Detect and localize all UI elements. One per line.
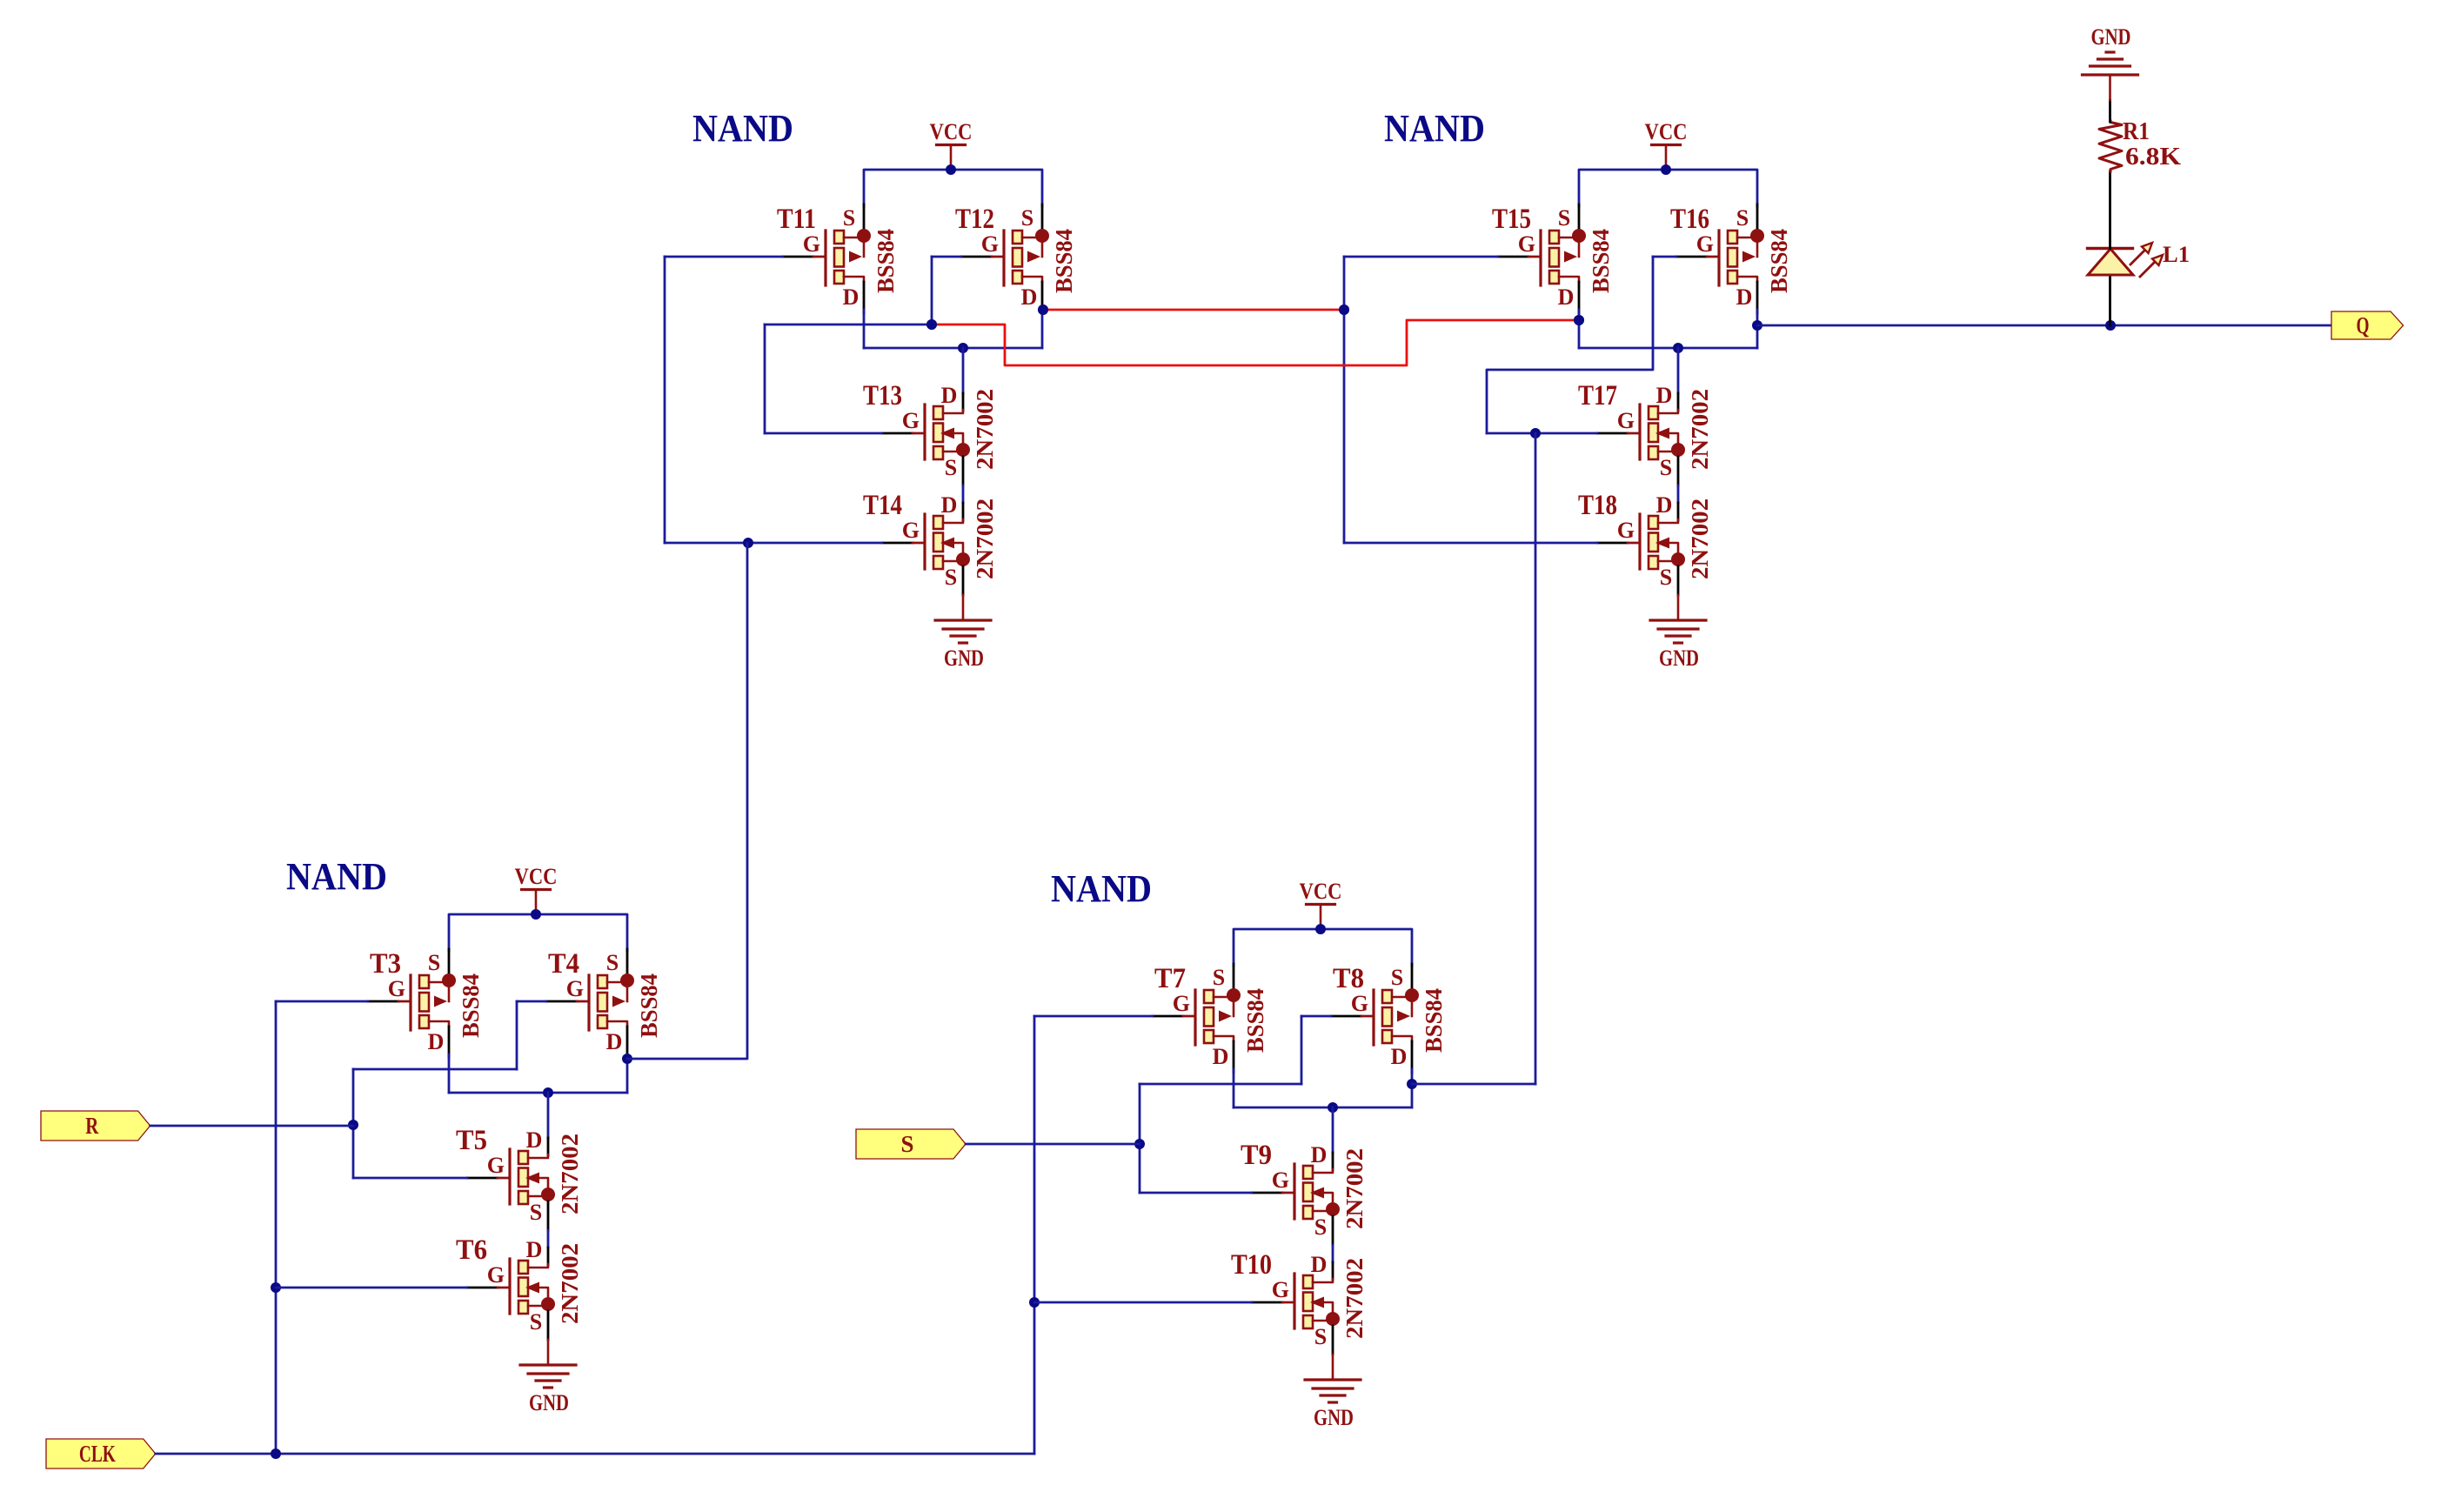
transistor T13 (2N7002 N-MOSFET) [863,380,998,485]
T14 drain pin [962,503,965,520]
junction S input node [1134,1139,1145,1149]
T5 gate pin [467,1177,498,1180]
T9 bulk line and source dot [1324,1193,1333,1205]
svg-text:D: D [1656,383,1673,408]
svg-text:D: D [428,1029,445,1054]
T10 drain pin [1332,1262,1334,1280]
T15 source lead and bulk dot [1559,237,1575,239]
junction red feedback joins T15 gate net [1339,304,1349,315]
svg-text:BSS84: BSS84 [1588,229,1614,293]
svg-text:D: D [1391,1044,1408,1069]
output row junction at T13 drain [958,343,968,353]
T6 bulk arrow [525,1282,539,1294]
transistor T12 (BSS84 P-MOSFET) [955,204,1077,313]
T15 channel pads [1549,231,1559,244]
svg-text:S: S [1660,455,1672,480]
svg-text:NAND: NAND [1384,107,1485,150]
wire T3 gate row [276,1000,368,1003]
svg-text:R: R [85,1113,98,1139]
T9 source pin [1332,1216,1334,1245]
wire NAND4 output to NAND3 input-B [1412,1083,1535,1086]
svg-text:S: S [1314,1324,1327,1349]
svg-text:D: D [843,284,859,310]
junction input-B node [926,319,937,330]
T17 bulk line and source dot [1669,433,1678,445]
VCC rail junction [531,909,541,920]
wire T5 gate row [353,1177,467,1180]
svg-text:S: S [945,565,957,590]
wire input-B upper row [353,1068,517,1071]
wire S net [966,1143,1140,1146]
junction re-stamp T15 gate net [1339,304,1349,315]
svg-text:GND: GND [1314,1405,1354,1430]
T10 bulk arrow [1310,1297,1324,1308]
junction NAND1 output tap [1038,304,1048,315]
T10 gate pin [1252,1301,1282,1304]
T15 gate bar [1539,231,1542,285]
svg-text:GND: GND [2091,24,2131,50]
junction re-stamp NAND1 input-B node [926,319,937,330]
junction CLK to T6 gate [271,1282,281,1293]
LED L1 [2088,242,2190,278]
wire T11 gate row [665,256,783,258]
svg-text:D: D [1213,1044,1229,1069]
T16 gate bar [1717,231,1720,285]
wire T8 gate row [1301,1015,1331,1018]
svg-text:G: G [487,1262,505,1288]
T3 bulk arrow [434,996,447,1007]
svg-text:6.8K: 6.8K [2125,144,2181,171]
T10 gate bar [1293,1274,1295,1328]
T14 channel pads [933,516,943,529]
T18 drain pin [1677,503,1680,520]
VCC rail wire [1234,929,1412,966]
T18 bulk line and source dot [1669,543,1678,555]
svg-text:VCC: VCC [1645,119,1688,144]
svg-text:D: D [1656,492,1673,518]
T13 gate bar [923,405,926,459]
wire output row to T9 drain [1332,1107,1334,1153]
junction NAND4 output tap [1407,1079,1417,1089]
T6 gate pin [467,1287,498,1289]
T15 bulk arrow [1564,251,1577,263]
T13 drain lead [943,410,963,413]
T4 drain pin [626,1027,629,1058]
VCC supply symbol [1645,119,1688,170]
wire T4 gate drop [516,1001,518,1069]
wire drain T8 down [1411,1069,1414,1107]
svg-text:VCC: VCC [515,864,558,889]
T8 drain pin [1411,1041,1414,1073]
wire drain T3 to output row [448,1054,451,1093]
svg-text:G: G [1617,408,1635,433]
T4 channel pads [598,975,607,988]
wire T17 gate row [1487,432,1597,435]
svg-text:T4: T4 [548,948,579,980]
svg-text:G: G [1272,1167,1289,1193]
T13 drain pin [962,393,965,411]
svg-text:NAND: NAND [1051,867,1152,910]
transistor T3 (BSS84 P-MOSFET) [368,948,484,1058]
junction input-A to NAND2 output [743,538,753,548]
wire T17 source to T18 drain [1677,485,1680,503]
T12 source pin [1041,204,1044,228]
wire T6 gate row [276,1287,467,1289]
T14 gate pin [882,542,913,545]
svg-text:T8: T8 [1333,963,1364,994]
wire input-B upper row [1140,1083,1301,1086]
output row wire [1234,1107,1412,1109]
svg-text:T11: T11 [777,204,816,235]
junction red feedback at T15 drain [1574,315,1584,325]
red net: NAND1 output to NAND3 input-A [1043,309,1344,311]
wire T12 gate drop [931,257,933,324]
T3 gate pin [368,1000,398,1003]
T14 bulk line and source dot [954,543,963,555]
wire T12 gate row [932,256,961,258]
T14 drain lead [943,519,963,523]
T18 bulk arrow [1655,538,1669,549]
svg-text:T13: T13 [863,380,902,411]
T3 drain lead [429,1021,449,1027]
T5 source pin [547,1201,550,1230]
svg-text:2N7002: 2N7002 [1341,1148,1368,1229]
T13 channel pads [933,406,943,419]
T3 source pin [448,949,451,973]
transistor T15 (BSS84 P-MOSFET) [1492,204,1614,313]
GND ground symbol [1650,595,1706,671]
T9 gate pin [1252,1192,1282,1194]
svg-text:BSS84: BSS84 [1242,988,1268,1053]
junction LED tap [2105,320,2116,331]
T8 source lead and bulk dot [1392,996,1408,999]
wire drain T7 to output row [1233,1069,1235,1107]
wire input-B left drop [1139,1084,1141,1193]
svg-text:GND: GND [944,646,984,671]
T9 drain lead [1313,1169,1333,1173]
svg-text:BSS84: BSS84 [458,973,484,1038]
T17 gate pin [1597,432,1628,435]
junction re-stamp T15 drain [1574,315,1584,325]
wire LED anode [2109,275,2111,325]
T18 gate pin [1597,542,1628,545]
svg-text:D: D [526,1127,543,1153]
svg-text:D: D [1558,284,1575,310]
svg-text:S: S [1660,565,1672,590]
T12 source lead and bulk dot [1022,237,1039,239]
svg-text:S: S [1021,205,1033,231]
svg-text:T7: T7 [1154,963,1186,994]
T11 gate bar [824,231,826,285]
svg-text:S: S [945,455,957,480]
T11 gate pin [783,256,813,258]
svg-text:S: S [1391,965,1403,990]
svg-text:G: G [1696,231,1714,257]
T10 drain lead [1313,1279,1333,1282]
T5 channel pads [518,1151,528,1164]
junction NAND2 output tap [622,1054,632,1064]
svg-text:GND: GND [529,1390,569,1415]
wire T5 source to T6 drain [547,1230,550,1248]
output row junction at T9 drain [1328,1102,1338,1113]
transistor T6 (2N7002 N-MOSFET) [456,1234,583,1340]
svg-text:T12: T12 [955,204,994,235]
wire Q net [1757,324,2331,327]
T3 drain pin [448,1027,451,1058]
T8 drain lead [1392,1036,1412,1041]
junction CLK rail to NAND2 [271,1448,281,1459]
svg-text:G: G [902,408,920,433]
VCC supply symbol [515,864,558,914]
T8 source pin [1411,964,1414,987]
GND ground symbol [935,595,991,671]
svg-text:G: G [803,231,820,257]
output row wire [449,1092,627,1094]
svg-text:G: G [388,976,405,1001]
svg-text:G: G [566,976,584,1001]
T12 drain pin [1041,282,1044,313]
T17 bulk arrow [1655,428,1669,439]
svg-text:T5: T5 [456,1125,487,1156]
svg-text:VCC: VCC [930,119,973,144]
T18 source pin [1677,566,1680,595]
VCC supply symbol [1300,879,1342,929]
T3 channel pads [419,975,429,988]
svg-text:G: G [1518,231,1535,257]
transistor T5 (2N7002 N-MOSFET) [456,1125,583,1230]
VCC rail junction [1661,164,1671,175]
resistor R1 [2099,118,2181,171]
T11 bulk arrow [849,251,862,263]
transistor T7 (BSS84 P-MOSFET) [1153,963,1268,1073]
wire input-B to NAND4 output (long vertical) [1535,433,1537,1084]
svg-text:D: D [526,1237,543,1262]
svg-text:S: S [1558,205,1570,231]
svg-text:T14: T14 [863,490,902,521]
T15 drain lead [1559,277,1579,282]
svg-text:G: G [1173,991,1190,1016]
T5 gate bar [508,1149,511,1204]
T9 gate bar [1293,1164,1295,1219]
VCC rail wire [449,914,627,951]
transistor T4 (BSS84 P-MOSFET) [546,948,662,1058]
svg-text:G: G [902,518,920,543]
T15 gate pin [1498,256,1528,258]
T7 drain lead [1214,1036,1234,1041]
wire CLK rail [156,1453,1034,1455]
svg-text:2N7002: 2N7002 [557,1243,583,1324]
junction R input node [348,1120,358,1130]
wire CLK vertical (right) [1033,1016,1036,1454]
wire drain T4 down [626,1054,629,1093]
T15 drain pin [1578,282,1581,313]
svg-text:D: D [1021,284,1038,310]
transistor T11 (BSS84 P-MOSFET) [777,204,899,313]
svg-text:NAND: NAND [286,855,387,898]
svg-text:S: S [843,205,855,231]
svg-text:T17: T17 [1578,380,1617,411]
T7 source pin [1233,964,1235,987]
T10 bulk line and source dot [1324,1302,1333,1315]
VCC supply symbol [930,119,973,170]
svg-text:BSS84: BSS84 [1051,229,1077,293]
junction CLK to T10 gate [1029,1297,1040,1308]
GND ground symbol (inverted) [2083,24,2138,100]
svg-text:CLK: CLK [79,1441,116,1467]
svg-text:T15: T15 [1492,204,1531,235]
svg-text:2N7002: 2N7002 [1687,498,1713,579]
svg-text:S: S [1213,965,1225,990]
T9 drain pin [1332,1153,1334,1170]
T15 source pin [1578,204,1581,228]
T6 channel pads [518,1261,528,1274]
T14 source pin [962,566,965,595]
T8 bulk arrow [1397,1011,1410,1022]
wire T13 gate row [765,432,882,435]
wire drain T15 to output row [1578,310,1581,348]
svg-text:R1: R1 [2123,118,2150,145]
T11 source pin [863,204,866,228]
T12 gate bar [1002,231,1005,285]
T9 channel pads [1303,1166,1313,1179]
net label S [856,1129,966,1159]
svg-text:T18: T18 [1578,490,1617,521]
T7 gate pin [1153,1015,1183,1018]
T4 source pin [626,949,629,973]
svg-text:S: S [901,1131,914,1157]
svg-text:D: D [1311,1252,1328,1277]
svg-text:G: G [1617,518,1635,543]
wire T9 source to T10 drain [1332,1245,1334,1262]
svg-text:T6: T6 [456,1234,487,1266]
T3 gate bar [409,975,411,1030]
wire T14 gate row [665,542,882,545]
svg-text:BSS84: BSS84 [873,229,899,293]
net label CLK [46,1439,156,1469]
T4 gate bar [587,975,590,1030]
svg-text:S: S [606,950,619,975]
T7 drain pin [1233,1041,1235,1073]
svg-text:S: S [1736,205,1749,231]
wire input-B left drop [764,324,766,433]
T11 source lead and bulk dot [844,237,860,239]
T17 channel pads [1649,406,1658,419]
svg-text:D: D [1736,284,1753,310]
wire T8 gate drop [1301,1016,1303,1084]
wire drain T11 to output row [863,310,866,348]
svg-text:S: S [530,1200,542,1225]
svg-text:2N7002: 2N7002 [1687,389,1713,470]
svg-text:D: D [941,492,958,518]
net flag Q (output) [2331,311,2404,339]
wire T13 source to T14 drain [962,485,965,503]
T13 gate pin [882,432,913,435]
T7 source lead and bulk dot [1214,996,1230,999]
T18 gate bar [1638,514,1641,569]
wire output row to T5 drain [547,1093,550,1138]
T16 source lead and bulk dot [1737,237,1754,239]
svg-text:2N7002: 2N7002 [972,498,998,579]
wire input-A vertical [664,257,666,543]
output row junction at T17 drain [1673,343,1683,353]
wire input-B upper row [765,324,932,326]
junction Q output tap [1752,320,1762,331]
LED light arrows [2130,250,2145,265]
wire input-B left drop [352,1069,355,1178]
T7 bulk arrow [1219,1011,1232,1022]
T8 gate pin [1331,1015,1361,1018]
wire T9 gate row [1140,1192,1252,1194]
T9 bulk arrow [1310,1188,1324,1199]
svg-text:D: D [941,383,958,408]
T7 channel pads [1204,990,1214,1003]
VCC rail wire [864,170,1042,206]
GND ground symbol [1305,1355,1361,1430]
T16 bulk arrow [1742,251,1756,263]
svg-text:L1: L1 [2163,242,2190,267]
T4 bulk arrow [612,996,625,1007]
T4 source lead and bulk dot [607,981,624,984]
wire T15 gate row [1344,256,1498,258]
VCC rail junction [946,164,956,175]
wire output row to T13 drain [962,348,965,393]
svg-text:T3: T3 [370,948,401,980]
T5 bulk line and source dot [539,1178,548,1190]
T12 bulk arrow [1027,251,1040,263]
wire LED to resistor [2109,171,2111,249]
T17 gate bar [1638,405,1641,459]
T18 drain lead [1658,519,1678,523]
T16 channel pads [1728,231,1737,244]
T16 source pin [1756,204,1759,228]
transistor T18 (2N7002 N-MOSFET) [1578,490,1713,595]
T14 gate bar [923,514,926,569]
T4 gate pin [546,1000,577,1003]
T13 bulk line and source dot [954,433,963,445]
svg-text:BSS84: BSS84 [636,973,662,1038]
T6 drain lead [528,1264,548,1268]
wire drain T16 down [1756,310,1759,348]
transistor T17 (2N7002 N-MOSFET) [1578,380,1713,485]
svg-text:G: G [487,1153,505,1178]
T6 source pin [547,1311,550,1340]
junction input-B node [1530,428,1541,438]
wire T18 gate row [1344,542,1597,545]
T13 source pin [962,457,965,485]
svg-text:T10: T10 [1231,1249,1272,1281]
GND ground symbol [520,1340,576,1415]
T10 source pin [1332,1326,1334,1355]
T5 drain lead [528,1154,548,1158]
VCC rail junction [1315,924,1326,934]
T16 drain pin [1756,282,1759,313]
T17 drain pin [1677,393,1680,411]
wire CLK vertical (left) [275,1001,278,1454]
svg-text:S: S [1314,1214,1327,1240]
svg-text:D: D [1311,1142,1328,1167]
wire T7 gate row [1034,1015,1153,1018]
T12 channel pads [1013,231,1022,244]
svg-text:NAND: NAND [692,107,793,150]
svg-text:2N7002: 2N7002 [972,389,998,470]
T8 channel pads [1382,990,1392,1003]
wire T4 gate row [517,1000,546,1003]
T10 channel pads [1303,1275,1313,1288]
wire resistor to ground [2109,100,2111,122]
T3 source lead and bulk dot [429,981,445,984]
svg-text:T16: T16 [1670,204,1709,235]
svg-text:S: S [428,950,440,975]
